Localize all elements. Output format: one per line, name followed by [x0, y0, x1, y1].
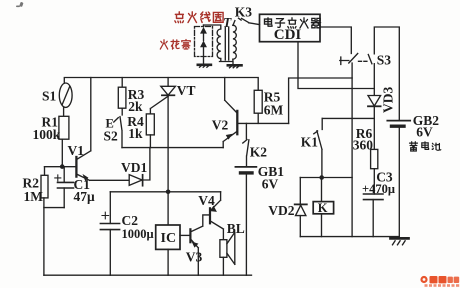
svg-text:V3: V3 — [186, 250, 203, 265]
svg-text:6M: 6M — [264, 102, 284, 117]
svg-text:K2: K2 — [250, 145, 268, 160]
svg-text:S2: S2 — [104, 129, 119, 144]
svg-text:1M: 1M — [24, 189, 44, 204]
svg-text:47μ: 47μ — [74, 189, 96, 204]
svg-text:V4: V4 — [198, 193, 215, 208]
svg-text:IC: IC — [161, 231, 177, 246]
svg-text:VD3: VD3 — [381, 87, 396, 113]
svg-text:VD1: VD1 — [121, 160, 147, 175]
svg-text:K1: K1 — [301, 135, 319, 150]
svg-text:1k: 1k — [128, 126, 143, 141]
svg-text:1000μ: 1000μ — [122, 227, 154, 241]
svg-text:VD2: VD2 — [268, 203, 294, 218]
svg-text:T: T — [223, 15, 232, 30]
svg-text:100k: 100k — [33, 127, 61, 142]
svg-text:V2: V2 — [212, 118, 229, 133]
svg-text:K: K — [318, 201, 328, 215]
svg-text:+470μ: +470μ — [362, 182, 395, 196]
svg-text:C2: C2 — [122, 213, 139, 228]
svg-text:BL: BL — [227, 221, 245, 236]
svg-text:2k: 2k — [128, 99, 143, 114]
svg-text:VT: VT — [177, 83, 196, 98]
svg-text:V1: V1 — [68, 143, 85, 158]
svg-text:360: 360 — [353, 138, 374, 153]
svg-text:S3: S3 — [377, 53, 392, 68]
svg-text:K3: K3 — [235, 5, 253, 20]
svg-text:6V: 6V — [262, 176, 279, 191]
svg-text:CDI: CDI — [274, 27, 302, 43]
svg-text:6V: 6V — [416, 124, 433, 139]
svg-text:S1: S1 — [42, 89, 57, 104]
